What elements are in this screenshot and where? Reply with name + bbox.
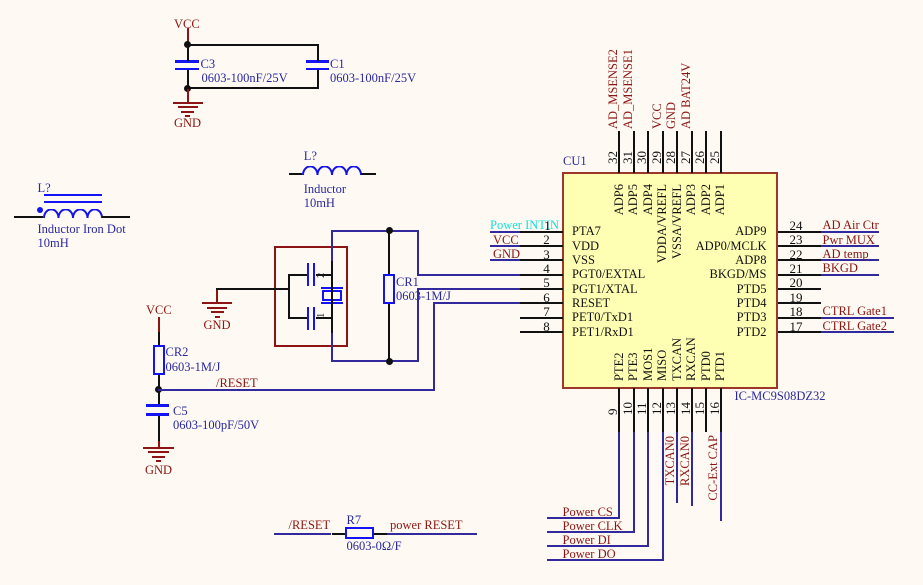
wire right of L? bbox=[102, 216, 131, 218]
power port VCC (top-left) bbox=[174, 18, 200, 30]
pin 4 PGT0/EXTAL bbox=[520, 274, 563, 276]
capacitor crystal top bbox=[288, 274, 307, 276]
wire crystal vertical blue top bbox=[331, 230, 333, 261]
wire crystal vertical blue bottom bbox=[331, 333, 333, 361]
ground GND (left chain) bbox=[158, 441, 160, 447]
pin 6 RESET bbox=[520, 302, 563, 304]
pin 19 PTD4 bbox=[778, 302, 821, 304]
net label Power DI bbox=[563, 534, 611, 546]
node junction CR1 top bbox=[386, 227, 393, 234]
pin 15 PTD0 bbox=[705, 388, 707, 432]
net label AD temp bbox=[823, 248, 869, 260]
capacitor C3 bbox=[175, 60, 199, 63]
wire loop right lower bbox=[417, 288, 419, 362]
net label BKGD bbox=[823, 262, 858, 274]
wire loop top bbox=[331, 230, 419, 232]
wire pin 6 vertical to /RESET bbox=[433, 302, 435, 390]
power port VCC (pin 2) bbox=[493, 234, 519, 246]
wire VCC to CR2 bbox=[158, 332, 160, 346]
pin 16 PTD1 bbox=[720, 388, 722, 432]
pin 30 ADP4 bbox=[647, 131, 649, 174]
net label TXCAN0 bbox=[664, 436, 676, 556]
pin 10 PTE3 bbox=[633, 388, 635, 432]
wire R7 to power RESET bbox=[387, 533, 477, 535]
wire pin 12 horizontal bbox=[547, 559, 664, 561]
pin 24 ADP9 bbox=[778, 231, 821, 233]
wire pin 12 vertical bbox=[662, 432, 664, 562]
wire pin 11 horizontal bbox=[547, 545, 650, 547]
pin 23 ADP0/MCLK bbox=[778, 245, 821, 247]
wire /RESET to R7 bbox=[274, 533, 332, 535]
wire junction to C5 bbox=[158, 391, 160, 405]
capacitor C5 bbox=[146, 404, 170, 407]
capacitor C1 bbox=[306, 60, 330, 63]
IC U1 (CU1) MC9S08DZ32 body bbox=[562, 172, 778, 389]
net label AD Air Ctr bbox=[823, 219, 879, 231]
pin number 1 (crystal) bbox=[317, 308, 327, 320]
net label CC-Ext CAP bbox=[707, 435, 719, 555]
net label /RESET (R7) bbox=[289, 519, 331, 531]
wire to pin 6 bbox=[433, 302, 520, 304]
pin 12 MISO bbox=[662, 388, 664, 432]
wire to pin 5 bbox=[417, 288, 520, 290]
pin 3 VSS bbox=[520, 259, 563, 261]
wire VCC stub left chain bbox=[158, 317, 160, 332]
power port GND (pin 28) bbox=[665, 101, 677, 128]
svg-text:1: 1 bbox=[317, 313, 327, 318]
wire pin 16 vertical bbox=[720, 432, 722, 521]
resistor CR2 bbox=[153, 345, 165, 375]
wire left of middle L? bbox=[289, 173, 302, 175]
wire pin 11 vertical bbox=[647, 432, 649, 548]
wire pin 9 horizontal bbox=[547, 517, 621, 519]
wire pin 24 bbox=[821, 231, 879, 233]
power port GND (pin 3) bbox=[493, 248, 520, 260]
wire to pin 4 bbox=[417, 274, 520, 276]
node junction bottom of C3 bbox=[184, 85, 191, 92]
inductor L? (iron dot, left) bbox=[38, 182, 51, 194]
wire pin 2 bbox=[490, 245, 520, 247]
pin 8 PET1/RxD1 bbox=[520, 331, 563, 333]
node junction /RESET bbox=[155, 386, 162, 393]
pin 27 ADP3 bbox=[691, 131, 693, 174]
pin 17 PTD2 bbox=[778, 331, 821, 333]
pin 29 VDDA/VREFL bbox=[662, 131, 664, 174]
wire pin 3 bbox=[490, 259, 520, 261]
wire pin 23 bbox=[821, 245, 879, 247]
pin 21 BKGD/MS bbox=[778, 274, 821, 276]
net label AD_MSENSE1 bbox=[622, 49, 634, 129]
wire bottom horizontal C3-C1 bbox=[187, 87, 319, 89]
wire loop bottom bbox=[331, 360, 419, 362]
wire VCC stub bbox=[187, 28, 189, 45]
pin 20 PTD5 bbox=[778, 288, 821, 290]
wire /RESET horizontal bbox=[158, 389, 435, 391]
pin 28 VSSA/VREFL bbox=[676, 131, 678, 174]
pin 14 RXCAN bbox=[691, 388, 693, 432]
net label AD_MSENSE2 bbox=[607, 49, 619, 129]
power port VCC (pin 29) bbox=[651, 103, 663, 129]
net label Pwr MUX bbox=[823, 234, 875, 246]
wire left of L? bbox=[14, 216, 43, 218]
box crystal group outline bbox=[274, 246, 348, 347]
wire CR2 to junction bbox=[158, 375, 160, 389]
wire loop right upper bbox=[417, 230, 419, 276]
node junction CR1 bottom bbox=[386, 358, 393, 365]
net label CTRL Gate2 bbox=[823, 320, 887, 332]
wire crystal vertical black bbox=[331, 260, 333, 333]
pin 22 ADP8 bbox=[778, 259, 821, 261]
ground GND (crystal) bbox=[216, 290, 218, 303]
net label Power CLK bbox=[563, 520, 623, 532]
wire pin 18 bbox=[821, 317, 894, 319]
pin number 2 (crystal) bbox=[317, 268, 327, 280]
pin 13 TXCAN bbox=[676, 388, 678, 432]
ground GND (top-left) bbox=[187, 89, 189, 102]
pin 32 ADP6 bbox=[618, 131, 620, 174]
pin 31 ADP5 bbox=[633, 131, 635, 174]
net label Power DO bbox=[563, 548, 616, 560]
wire top horizontal C3-C1 bbox=[187, 44, 319, 46]
wire pin 14 vertical bbox=[691, 432, 693, 506]
wire cap left vertical bbox=[288, 274, 290, 320]
node junction top of C3 bbox=[184, 41, 191, 48]
wire pin 10 vertical bbox=[633, 432, 635, 534]
pin 5 PGT1/XTAL bbox=[520, 288, 563, 290]
pin 1 PTA7 bbox=[520, 231, 563, 233]
power port VCC (left chain) bbox=[146, 304, 172, 316]
pin 7 PET0/TxD1 bbox=[520, 317, 563, 319]
wire pin 10 horizontal bbox=[547, 531, 635, 533]
pin 11 MOS1 bbox=[647, 388, 649, 432]
wire pin 22 bbox=[821, 259, 879, 261]
resistor CR1 bbox=[388, 231, 390, 275]
svg-text:2: 2 bbox=[317, 273, 327, 278]
capacitor crystal bottom bbox=[288, 317, 307, 319]
wire pin 17 bbox=[821, 331, 894, 333]
net label AD BAT24V bbox=[680, 62, 692, 128]
pin 9 PTE2 bbox=[618, 388, 620, 432]
pin 25 ADP1 bbox=[720, 131, 722, 174]
net label Power CS bbox=[563, 506, 613, 518]
crystal Y1 bbox=[321, 287, 343, 290]
wire GND to caps bbox=[216, 288, 290, 290]
pin 26 ADP2 bbox=[705, 131, 707, 174]
net label /RESET bbox=[216, 377, 258, 389]
net label power RESET bbox=[390, 519, 463, 531]
net label Power INT bbox=[490, 219, 559, 231]
pin 18 PTD3 bbox=[778, 317, 821, 319]
wire pin 1 bbox=[490, 231, 520, 233]
wire pin 9 vertical bbox=[618, 432, 620, 520]
wire pin 13 vertical bbox=[676, 432, 678, 504]
net label CTRL Gate1 bbox=[823, 305, 887, 317]
resistor R7 bbox=[332, 533, 346, 535]
wire C5 to GND bbox=[158, 416, 160, 441]
pin 2 VDD bbox=[520, 245, 563, 247]
wire pin 21 bbox=[821, 274, 879, 276]
inductor L? (middle) bbox=[304, 150, 317, 162]
net label RXCAN0 bbox=[679, 436, 691, 556]
wire right of middle L? bbox=[361, 173, 376, 175]
